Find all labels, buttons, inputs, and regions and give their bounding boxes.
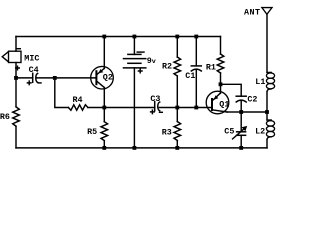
- transistor Q2: [91, 66, 114, 89]
- svg-text:R5: R5: [87, 127, 97, 137]
- wire C3 to Q1 base: [159, 107, 212, 109]
- node bottom rail/R5: [102, 146, 106, 150]
- node midwire/R2/R3: [175, 106, 179, 110]
- node rail/battery: [133, 35, 137, 39]
- wire left rail upper: [15, 37, 17, 52]
- wire battery top lead: [133, 37, 135, 55]
- node bottom rail/battery: [133, 146, 137, 150]
- node rail/C1: [194, 35, 198, 39]
- inductor L2: [266, 120, 274, 140]
- node R1/C2/Q1: [219, 82, 223, 86]
- svg-text:R3: R3: [162, 128, 172, 138]
- resistor R3: [174, 122, 181, 141]
- wire tap to L2: [266, 112, 268, 120]
- wire R2 bottom lead: [176, 76, 178, 108]
- wire bottom rail: [16, 147, 267, 149]
- svg-text:R2: R2: [162, 61, 172, 71]
- antenna symbol: [262, 8, 272, 15]
- svg-text:L1: L1: [255, 77, 265, 87]
- svg-text:C2: C2: [247, 95, 257, 105]
- resistor R1: [217, 54, 224, 73]
- svg-text:C5: C5: [224, 126, 234, 136]
- wire left rail node to R6: [15, 78, 17, 107]
- wire top rail: [16, 36, 221, 38]
- wire MIC to node: [15, 63, 17, 78]
- wire left rail lower: [15, 126, 17, 148]
- wire battery bottom lead: [133, 68, 135, 148]
- wire C5 bottom lead: [240, 135, 242, 148]
- wire down to R5: [103, 108, 105, 122]
- node C2/Q1/L junction: [239, 110, 243, 114]
- wire R4 to Q2 column: [88, 107, 104, 109]
- wire node down to Q1 collector: [220, 84, 222, 93]
- svg-text:Q2: Q2: [103, 73, 113, 83]
- svg-text:ANT: ANT: [244, 8, 260, 18]
- wire L1 to tap node: [266, 92, 268, 112]
- node Q2/R4/midwire junction: [102, 106, 106, 110]
- node rail/Q2: [102, 35, 106, 39]
- battery B1 9v: [124, 52, 146, 73]
- capacitor C1: [191, 66, 201, 71]
- wire C4 left lead: [16, 77, 33, 79]
- node coil tap: [265, 110, 269, 114]
- svg-text:C3: C3: [150, 94, 160, 104]
- capacitor C3: [151, 102, 163, 114]
- svg-text:C4: C4: [29, 65, 39, 75]
- wire Q2 emitter down: [103, 88, 105, 108]
- svg-text:R4: R4: [73, 95, 83, 105]
- resistor R2: [174, 57, 181, 76]
- wire node down to R4: [55, 78, 69, 108]
- svg-text:Q1: Q1: [219, 99, 229, 109]
- resistor R6: [13, 107, 20, 126]
- svg-text:MIC: MIC: [24, 53, 39, 63]
- wire C2 branch top: [221, 84, 242, 96]
- svg-text:R6: R6: [0, 112, 10, 122]
- wire R3 top lead: [176, 108, 178, 122]
- microphone MIC: [2, 49, 21, 70]
- wire C4 to Q2 base: [37, 77, 96, 79]
- svg-text:9v: 9v: [147, 56, 156, 66]
- transistor Q1: [206, 91, 229, 114]
- wire C1 top lead: [195, 37, 197, 66]
- inductor L1: [266, 72, 274, 91]
- wire R1 to node: [220, 73, 222, 84]
- wire R3 bottom lead: [176, 141, 178, 148]
- node MIC/C4 junction: [14, 76, 18, 80]
- wire C2 bottom lead: [240, 100, 242, 112]
- wire antenna to L1: [266, 14, 268, 72]
- svg-text:R1: R1: [206, 62, 216, 72]
- wire rail right corner down to R1: [220, 37, 222, 55]
- node rail/R2: [175, 35, 179, 39]
- wire C1 bottom lead: [195, 69, 197, 107]
- wire L2 to bottom rail: [266, 140, 268, 148]
- svg-text:L2: L2: [255, 126, 265, 136]
- wire mid wire to C3: [104, 107, 154, 109]
- resistor R4: [68, 105, 88, 110]
- wire Q2 collector up to rail: [103, 37, 105, 69]
- wire R5 to bottom rail: [103, 141, 105, 148]
- node C4/R4 junction: [53, 76, 57, 80]
- wire C5 top lead: [240, 112, 242, 132]
- node bottom rail/C5: [239, 146, 243, 150]
- wire node to coil column: [241, 111, 267, 113]
- resistor R5: [101, 122, 108, 141]
- trimmer capacitor C5: [233, 126, 248, 139]
- wire Q1 emitter to node: [227, 111, 241, 113]
- node midwire/C1: [194, 106, 198, 110]
- capacitor C2: [236, 96, 246, 102]
- svg-text:C1: C1: [185, 71, 195, 81]
- node bottom rail/R3: [175, 146, 179, 150]
- wire R2 top lead: [176, 37, 178, 58]
- capacitor C4: [27, 73, 41, 84]
